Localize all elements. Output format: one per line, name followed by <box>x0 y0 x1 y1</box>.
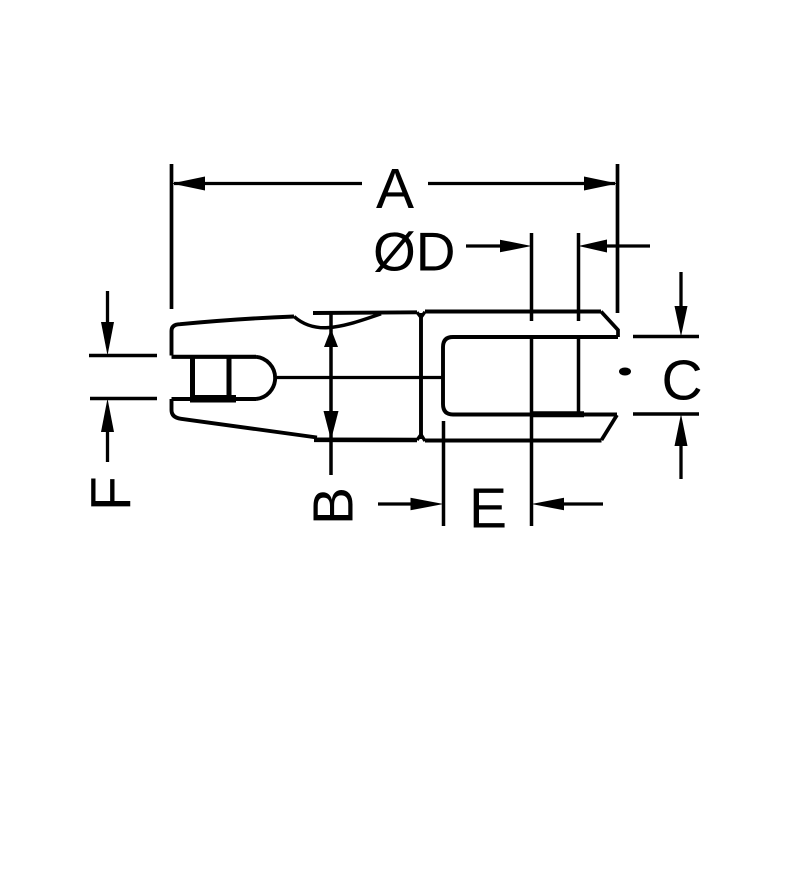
label B <box>302 487 366 525</box>
dimension F arrows <box>101 291 114 462</box>
slot cross bar 1 <box>190 357 195 399</box>
slot bottom line <box>172 397 257 401</box>
label ØD <box>373 221 456 283</box>
dimension D extension line right / pin edge right <box>577 233 581 413</box>
svg-text:F: F <box>80 476 144 511</box>
svg-text:A: A <box>376 157 414 221</box>
dimension C top extension bar <box>633 335 699 339</box>
dimension F bottom extension bar <box>90 397 157 401</box>
label F <box>80 476 144 511</box>
slot top line <box>172 355 257 359</box>
dimension F top extension bar <box>89 354 157 358</box>
label E <box>469 477 507 541</box>
svg-text:C: C <box>662 349 703 413</box>
dimension E extension line left <box>442 421 446 526</box>
dimension E line <box>378 498 603 511</box>
fork outline right <box>425 312 618 441</box>
svg-text:E: E <box>469 477 507 541</box>
svg-text:ØD: ØD <box>373 221 456 283</box>
dimension B line and arrows <box>324 314 339 476</box>
swivel body left: outline <box>172 312 426 441</box>
dimension D extension line left / pin edge left <box>530 233 534 526</box>
slot rounded end <box>256 357 275 399</box>
svg-text:B: B <box>302 487 366 525</box>
dimension A extension line left <box>170 164 174 309</box>
swivel joint line <box>419 313 423 439</box>
dimension A extension line right <box>616 164 620 313</box>
dimension A line <box>172 177 618 191</box>
small mark <box>619 368 631 376</box>
center line <box>277 376 443 379</box>
label A <box>376 157 414 221</box>
dimension D line <box>466 240 650 253</box>
dimension C arrows <box>675 272 688 479</box>
label C <box>662 349 703 413</box>
dimension C bottom extension bar <box>633 412 699 416</box>
slot cross bar 2 <box>227 357 232 399</box>
